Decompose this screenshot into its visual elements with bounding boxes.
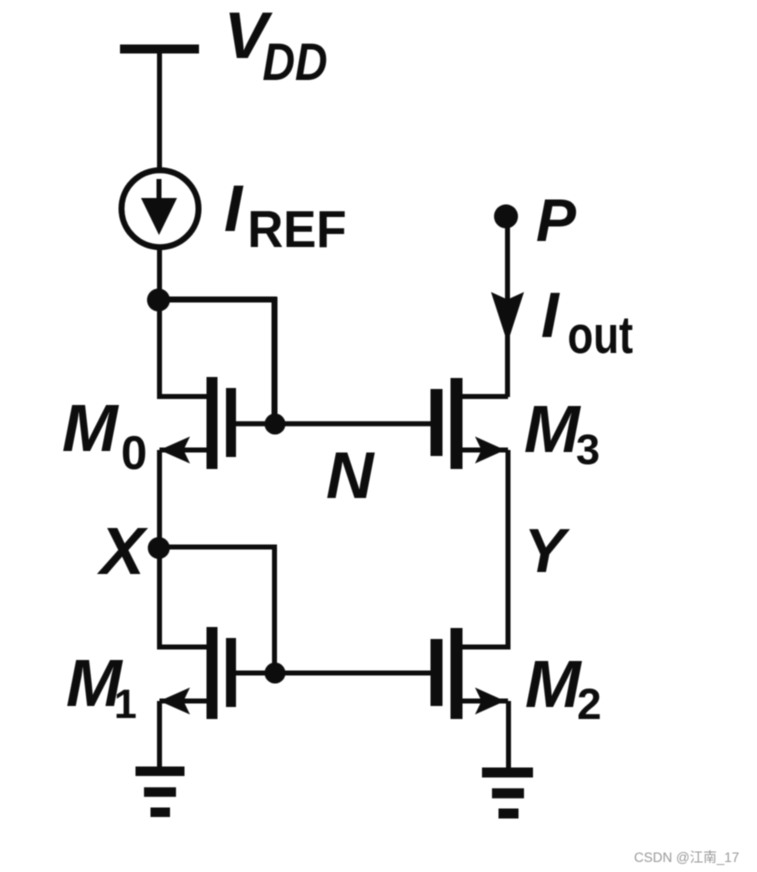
wire node A to loop corner [158,297,277,303]
wire IREF to node A [157,246,162,300]
svg-text:out: out [568,306,634,365]
svg-text:REF: REF [248,201,347,259]
wire node X down to M1 drain [160,548,207,647]
wire M0 source down to node X [157,450,162,548]
label VDD [224,0,328,92]
node M1 gate junction dot [265,663,286,684]
svg-text:1: 1 [114,681,137,727]
wire node A down to M0 drain [160,300,207,397]
wire VDD to IREF source [157,53,162,170]
ground symbol at M1 source [136,767,185,818]
svg-text:0: 0 [121,426,147,479]
svg-text:M: M [525,647,582,722]
ground symbol at M2 source [482,768,533,819]
label M3 [524,392,600,474]
watermark CSDN [634,850,739,865]
node N junction dot [265,414,286,435]
wire node X to lower loop corner [159,547,275,673]
svg-text:P: P [536,187,577,254]
svg-text:Y: Y [524,517,571,586]
svg-text:CSDN @江南_17: CSDN @江南_17 [634,850,739,865]
wire node P to M3 drain with Iout arrow [491,216,524,397]
wire M3 source to M2 drain (node Y) [463,450,509,647]
label M0 [62,391,147,479]
node A junction dot [147,289,170,312]
node X junction dot [148,537,170,559]
current source IREF [122,170,199,247]
svg-text:DD: DD [263,33,328,92]
label X [96,514,149,589]
svg-text:M: M [62,391,119,466]
power rail VDD symbol [120,45,199,54]
svg-text:I: I [541,279,560,351]
transistor M0 [160,377,278,469]
wire M2 source down to ground [506,701,511,770]
svg-text:M: M [524,392,581,467]
wire M1 gate to M2 gate [275,671,431,676]
svg-text:3: 3 [576,426,600,474]
svg-text:N: N [326,438,375,512]
label P [536,187,577,254]
label Iout [541,279,633,365]
label M1 [66,646,137,727]
wire loop corner down to node N [272,297,278,424]
wire node N to M3 gate [275,421,431,426]
svg-text:I: I [224,171,244,245]
label Y [524,517,571,586]
label IREF [224,171,347,259]
label M2 [525,647,601,729]
transistor M3 [431,378,509,469]
node P terminal dot [494,204,518,228]
wire M1 source down to ground [157,701,162,768]
transistor M1 [160,627,278,719]
transistor M2 [431,628,509,719]
label N [326,438,375,512]
svg-text:X: X [96,514,149,589]
svg-text:2: 2 [577,680,601,729]
